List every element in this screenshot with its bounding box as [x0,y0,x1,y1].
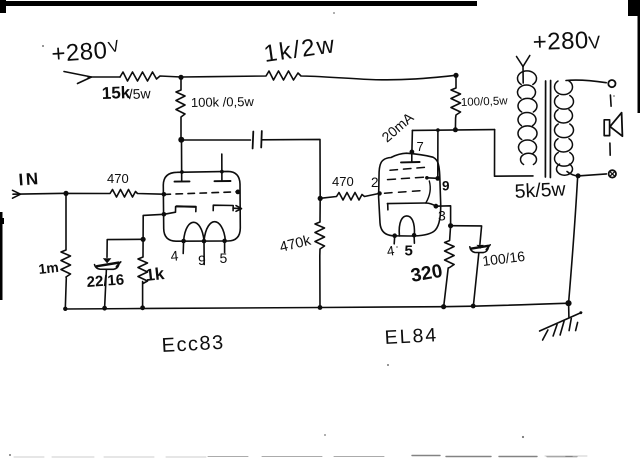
node junction secondary / ground drop [576,173,581,178]
ECC83 grid dashed line [164,192,238,195]
svg-text:5: 5 [220,250,228,266]
svg-text:100/16: 100/16 [481,248,526,269]
EL84 grid g3 dashes [390,167,426,170]
ECC83 heater arc right [204,222,225,241]
wire anode rail horizontal [412,129,494,132]
resistor R 100/0.5w [451,75,461,130]
wire node to coupling cap [181,139,250,141]
wire screen riser pin 9 [437,130,439,178]
node pin 9 [435,176,440,181]
capacitor C 22/16 electrolytic [95,258,121,308]
svg-text:15k: 15k [101,83,131,103]
node pin 3 [434,204,439,209]
label 1k/2w [262,31,338,68]
svg-text:9: 9 [198,252,206,268]
node pin 2 [377,191,381,195]
svg-text:1k/2w: 1k/2w [262,31,338,68]
node junction 100R / anode rail [453,127,458,132]
resistor R 1M [61,193,71,308]
speaker terminal bottom [609,170,616,177]
label +280V left [51,37,122,68]
wire ground drop right [569,178,578,303]
EL84 g3-cathode inner curve [426,181,430,203]
label 5k/5w [514,178,567,203]
speaker dash top [609,95,612,106]
ECC83 cathode left staple [164,207,196,215]
label 9 [442,179,450,194]
tube ECC83 envelope [163,171,240,241]
ECC83 anode right stub [215,154,231,181]
B+ feed arrow left [64,72,120,84]
label 7 [417,139,424,154]
svg-text:EL84: EL84 [384,324,439,349]
svg-text:1k: 1k [144,264,165,285]
wire node to 100uF [451,226,482,245]
EL84 pin 5 stub [412,233,417,243]
EL84 heater dome [399,216,414,236]
OPT core [545,81,550,178]
svg-text:Ecc83: Ecc83 [161,332,225,357]
label 320 [409,261,444,287]
label 100k/0.5w [191,94,255,110]
scan noise bottom dashed line [14,456,587,458]
capacitor C 100/16 electrolytic [470,245,490,306]
wire secondary top to terminal [566,80,606,83]
node ECC83 grid right [236,190,241,195]
OPT primary winding [518,71,537,165]
label 3 [438,208,446,224]
label 20mA [378,109,417,146]
node ECC83 cathode left [162,212,167,217]
label 470 right [332,174,354,189]
svg-text:1m: 1m [38,259,60,277]
resistor R 15k/5w [120,72,181,81]
OPT B+ Y terminal [517,56,530,84]
svg-text:4: 4 [386,243,396,259]
node junction input / 1M [63,191,68,196]
wire g2 to pin 9 [427,177,438,180]
EL84 grid g1 dashes [385,190,425,193]
label 22/16 [86,271,125,291]
resistor R 1k/2w [181,71,456,80]
label +280V right [532,27,601,56]
svg-text:5k/5w: 5k/5w [514,178,567,203]
svg-text:9: 9 [442,179,450,194]
labels ECC83 pins 4 9 5 [170,247,228,268]
ECC83 cathode right staple [213,205,241,211]
svg-text:470k: 470k [278,233,313,256]
node junction B+ / 100R [453,73,458,78]
scan border left edge strip [0,212,4,300]
ECC83 pin 9 stub [202,239,207,265]
label 1k [144,264,165,285]
node riser/rail junction [436,128,440,132]
node junction 100k / anode / cap [178,137,184,143]
ECC83 anode left lead [175,140,190,182]
label 100/16 [481,248,526,269]
node junction cathode / 22uF / 1k [141,237,146,242]
node rail 320R [441,304,446,309]
speaker symbol [604,113,622,137]
resistor R 100k/0.5w [176,77,185,139]
scan border top bar [0,0,477,13]
svg-text:20mA: 20mA [378,109,417,146]
svg-text:+280: +280 [51,37,109,68]
svg-text:5: 5 [405,243,413,260]
node rail 1k [140,305,145,310]
svg-text:470: 470 [332,174,354,189]
svg-text:+280: +280 [532,27,589,56]
node ECC83 grid left [162,192,167,197]
svg-text:100k /0,5w: 100k /0,5w [191,94,255,110]
ground rail wire [65,303,569,309]
label IN [18,169,41,189]
node rail 22uF [102,306,107,311]
resistor R 470 input [66,190,164,198]
input arrow [13,190,67,198]
label 1M [38,259,60,277]
label 2 [371,175,379,190]
resistor R 470k [315,198,325,307]
label EL84 [384,324,439,349]
node junction 320R / 100uF [448,223,453,228]
svg-text:V: V [107,38,122,57]
resistor R 320 [444,226,454,307]
OPT secondary winding [555,81,574,175]
svg-text:/5w: /5w [129,85,152,102]
wire to OPT primary bottom [495,130,534,177]
label 470 left [107,171,129,186]
svg-text:V: V [588,32,602,53]
wire ECC83 cathode to bias node [143,214,164,239]
svg-text:4: 4 [170,247,179,264]
resistor R 470 grid EL84 [320,193,379,201]
scan border top-right corner block [628,0,640,113]
node g2 inner [425,176,429,180]
label 100/0.5w [461,95,509,109]
wire coupling cap to grid node [262,139,320,198]
speaker terminal top [608,80,615,87]
wire secondary bottom [567,172,606,176]
ground symbol [540,303,583,340]
svg-text:470: 470 [107,171,129,186]
node rail 470k [318,305,323,310]
wire anode drop to pin 7 [411,130,414,152]
ECC83 pin 4 stub [181,239,186,254]
EL84 grid g2 dashes [388,177,427,180]
resistor R 1k cathode [138,239,148,307]
node junction B+ / 100k [178,75,183,80]
svg-text:3: 3 [438,208,446,224]
svg-text:7: 7 [417,139,424,154]
speaker dash bottom [609,143,611,155]
ECC83 heater arc left [184,222,204,241]
node ground main [565,300,571,306]
tube EL84 envelope [379,153,441,236]
svg-text:22/16: 22/16 [86,271,125,291]
svg-text:320: 320 [409,261,444,287]
EL84 pin 4 stub [392,233,397,243]
svg-text:100/0,5w: 100/0,5w [461,95,509,109]
label 15k/5w [101,83,151,103]
ECC83 pin 5 stub [222,239,227,253]
svg-text:2: 2 [371,175,379,190]
wire pin3 to cathode RC [436,206,451,226]
labels EL84 pins 4 5 [386,243,413,260]
node rail 1M [63,307,67,311]
node rail 100uF [471,304,476,309]
label ECC83 [161,332,225,357]
svg-text:IN: IN [18,169,41,189]
label 470k [278,233,313,256]
capacitor C coupling [253,131,262,149]
node junction cap / 470k / 470 [318,196,323,201]
EL84 cathode line [387,203,435,210]
wire node to 22uF [107,239,143,257]
EL84 anode [401,150,420,163]
